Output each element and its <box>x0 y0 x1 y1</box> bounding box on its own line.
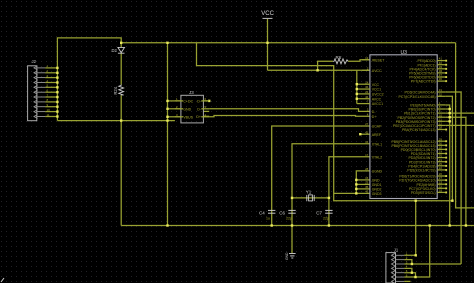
connector J3 (USB) <box>181 90 204 123</box>
wire D- <box>209 109 370 112</box>
wire crystal link <box>292 197 329 199</box>
svg-text:AREF: AREF <box>372 133 381 137</box>
svg-text:35: 35 <box>365 185 369 189</box>
wire VCC rail drop <box>456 43 474 208</box>
svg-text:Y1: Y1 <box>306 190 312 195</box>
wire diode to resistor <box>120 53 122 84</box>
svg-text:/RESET: /RESET <box>372 58 386 62</box>
wire right exit A <box>445 112 474 114</box>
svg-text:13: 13 <box>365 56 369 60</box>
svg-text:22p: 22p <box>286 217 292 221</box>
U3 right pin labels <box>391 59 435 195</box>
J1 pin numbers <box>406 252 408 278</box>
wire right exit B <box>445 124 474 126</box>
U3 right pin numbers <box>439 57 443 193</box>
svg-text:14: 14 <box>365 80 369 84</box>
svg-text:10: 10 <box>47 108 51 112</box>
wire XTAL2 <box>329 157 370 226</box>
svg-text:24: 24 <box>365 90 369 94</box>
op-amp U3 body (MCU) <box>370 50 437 199</box>
J2 pin numbers <box>47 64 51 117</box>
svg-text:28: 28 <box>365 167 369 171</box>
svg-text:PC7(ICP3/CLK0/OC4B): PC7(ICP3/CLK0/OC4B) <box>398 95 435 99</box>
wire right PC7 drop <box>445 96 452 200</box>
svg-text:23: 23 <box>365 181 369 185</box>
wire R6 tap <box>318 61 333 70</box>
svg-text:42: 42 <box>365 130 369 134</box>
svg-text:C6: C6 <box>279 210 285 215</box>
capacitor C7 <box>316 210 332 220</box>
diode D2 <box>112 47 125 53</box>
svg-text:GND: GND <box>285 252 289 260</box>
wire J1 pin3 <box>404 263 461 265</box>
svg-text:C+DC: C+DC <box>183 99 193 103</box>
wire ground bus <box>121 225 474 227</box>
ground <box>285 252 296 260</box>
crystal Y1 <box>306 190 314 202</box>
wire UGND <box>356 171 370 194</box>
wire VCC feed to IC <box>268 69 370 71</box>
svg-text:VCC: VCC <box>261 11 274 17</box>
svg-text:15: 15 <box>365 176 369 180</box>
svg-text:PD0(INT0/SCL): PD0(INT0/SCL) <box>411 191 436 195</box>
svg-text:VCC: VCC <box>372 83 380 87</box>
wire VCC rail <box>121 42 455 44</box>
svg-text:GND2: GND2 <box>372 188 382 192</box>
svg-text:22: 22 <box>439 166 443 170</box>
U3 left pin stubs <box>362 84 370 103</box>
connector J1 <box>386 248 399 283</box>
resistor R24 <box>113 85 124 96</box>
wire VCC cluster vertical <box>356 70 358 103</box>
svg-text:XTAL1: XTAL1 <box>372 142 382 146</box>
svg-text:UGND: UGND <box>372 170 383 174</box>
wire J1 pin7 <box>404 280 410 282</box>
svg-text:43: 43 <box>365 190 369 194</box>
wire vertical x=167.5 <box>167 43 169 226</box>
wire J3 right stubs <box>203 100 209 102</box>
svg-text:AVCC1: AVCC1 <box>372 102 383 106</box>
svg-text:R6: R6 <box>336 55 342 60</box>
wire top-left loop <box>57 38 121 121</box>
svg-text:UVCC2: UVCC2 <box>372 93 384 97</box>
wire diode chain upper <box>120 43 122 48</box>
wire R6 to RESET pin <box>348 60 370 62</box>
wire right PC6 drop <box>445 92 461 264</box>
power symbol VCC <box>261 11 274 18</box>
wire J1 pin1 <box>404 201 416 256</box>
wire GND stubs <box>356 179 370 181</box>
svg-text:UCAP: UCAP <box>372 125 382 129</box>
resistor R6 <box>333 55 348 64</box>
svg-text:GND: GND <box>183 107 191 111</box>
svg-text:VBUS: VBUS <box>183 115 193 119</box>
wire VCC cluster taps <box>357 83 362 85</box>
svg-text:PB4(PCINT4/ADC13): PB4(PCINT4/ADC13) <box>402 128 436 132</box>
svg-text:36: 36 <box>439 77 443 81</box>
wire VCC symbol drop <box>267 19 269 70</box>
wire resistor down to bus <box>120 95 122 225</box>
U3 left pin labels <box>372 58 386 196</box>
U3 right pin end squares <box>445 60 447 194</box>
J2 pins <box>34 66 45 119</box>
wire J1 pin4 <box>404 268 412 272</box>
svg-text:C7: C7 <box>316 210 322 215</box>
J3 pin numbers <box>176 97 207 117</box>
svg-text:22p: 22p <box>323 217 329 221</box>
svg-text:18: 18 <box>439 189 443 193</box>
wire AREF stub <box>360 133 370 135</box>
svg-text:44: 44 <box>365 95 369 99</box>
wire J2 pin rows <box>45 67 57 69</box>
wire loop net around IC <box>197 43 453 201</box>
svg-text:28: 28 <box>439 126 443 130</box>
svg-text:VCC1: VCC1 <box>372 88 381 92</box>
wire UCAP <box>272 126 370 226</box>
U3 left pin numbers <box>365 56 369 194</box>
svg-text:16: 16 <box>365 140 369 144</box>
capacitor C6 <box>279 210 295 220</box>
connector J2 <box>28 59 37 121</box>
svg-text:27: 27 <box>365 122 369 126</box>
wire D+ <box>209 116 370 117</box>
svg-text:GND3: GND3 <box>372 192 382 196</box>
svg-text:AVCC: AVCC <box>372 97 382 101</box>
svg-text:32: 32 <box>439 92 443 96</box>
svg-text:D+: D+ <box>372 115 377 119</box>
wire J1 pin5 <box>404 273 415 277</box>
svg-text:U3: U3 <box>401 50 408 56</box>
svg-text:C4: C4 <box>259 210 265 215</box>
capacitor C4 <box>259 210 275 220</box>
wire J2 bottom net <box>57 120 174 122</box>
svg-text:J1: J1 <box>394 248 399 253</box>
svg-text:D+: D+ <box>196 115 201 119</box>
svg-text:J2: J2 <box>32 59 37 64</box>
svg-text:1u: 1u <box>266 217 270 221</box>
bottom-left sheet mark <box>1 278 4 282</box>
svg-text:GND: GND <box>372 179 380 183</box>
wire J1 pin6 <box>404 226 430 278</box>
svg-text:17: 17 <box>365 153 369 157</box>
U3 right pin stubs <box>437 61 445 193</box>
svg-text:J3: J3 <box>189 90 194 95</box>
J3 pins <box>175 101 209 117</box>
svg-text:PD5(XCK1/#CTS): PD5(XCK1/#CTS) <box>407 169 435 173</box>
wire right v466 <box>445 117 466 225</box>
wire J1 pin2 <box>404 260 412 264</box>
wire GND3 to ground run <box>334 192 370 194</box>
svg-text:XTAL2: XTAL2 <box>372 155 382 159</box>
wire right tie-bus <box>445 105 449 226</box>
svg-text:11: 11 <box>47 113 50 117</box>
svg-text:UVCC: UVCC <box>372 69 382 73</box>
IC U3 pin stubs <box>362 60 370 71</box>
wire XTAL1 <box>292 144 370 254</box>
svg-text:34: 34 <box>365 85 369 89</box>
svg-text:PF7(ADC7/TDI): PF7(ADC7/TDI) <box>411 80 436 84</box>
J1 pins <box>392 253 405 283</box>
svg-text:GND1: GND1 <box>372 183 382 187</box>
svg-text:R24: R24 <box>113 86 118 94</box>
wire J3 left stubs <box>168 100 181 102</box>
svg-text:D2: D2 <box>112 48 118 53</box>
